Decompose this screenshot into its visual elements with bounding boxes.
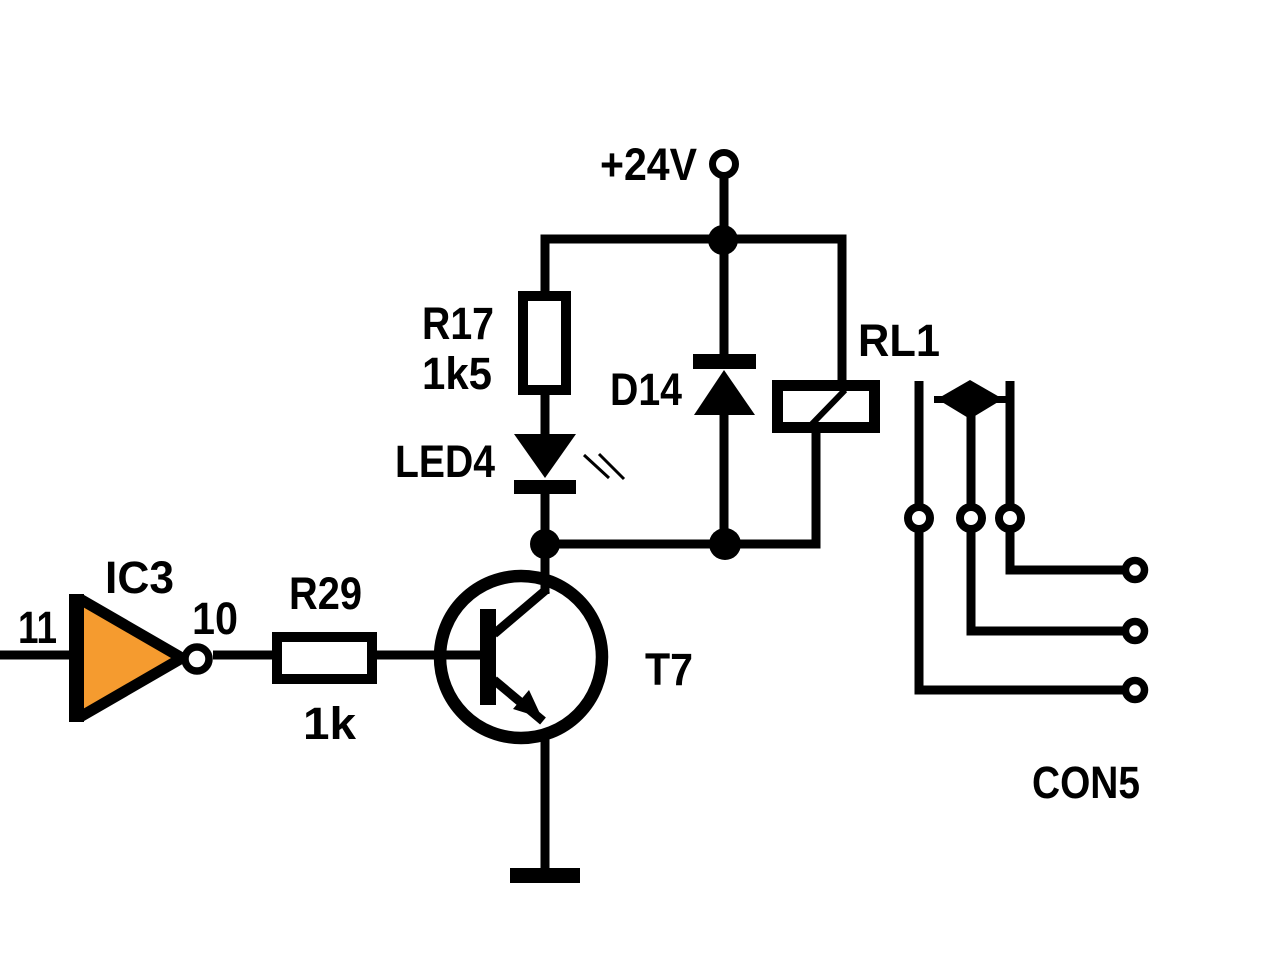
svg-text:1k: 1k [303, 698, 357, 749]
wire input to IC3 [0, 651, 69, 660]
wire collector drop [541, 533, 550, 594]
svg-text:IC3: IC3 [105, 552, 174, 603]
relay coil RL1 [778, 386, 875, 428]
svg-text:+24V: +24V [600, 139, 697, 190]
svg-text:CON5: CON5 [1032, 757, 1140, 808]
wire contact pole 2 [967, 410, 976, 504]
D14 triangle [694, 370, 755, 415]
transistor T7 circle [440, 576, 602, 738]
LED LED4 triangle [514, 434, 576, 478]
RL1 coil diagonal [812, 390, 845, 424]
inverter IC3 [84, 600, 176, 716]
wire pole 2 to CON5 pin2 [971, 532, 1123, 631]
wire emitter to ground [541, 730, 550, 870]
D14 anode stem [720, 413, 729, 544]
svg-text:10: 10 [192, 593, 238, 644]
wire contact pole 1 [915, 381, 924, 504]
svg-text:R17: R17 [422, 298, 494, 349]
T7 base bar [480, 609, 496, 705]
relay contact arm diamond [937, 380, 1003, 419]
T7 emitter diagonal [494, 680, 543, 721]
T7 emitter arrowhead [513, 690, 542, 718]
CON5 pin 1 [1126, 561, 1145, 580]
LED4 cathode bar [514, 480, 576, 494]
D14 cathode bar [693, 354, 756, 369]
IC3 output bubble [185, 647, 209, 671]
node +24V terminal [713, 153, 736, 176]
wire R17 to LED4 [541, 390, 550, 436]
svg-text:1k5: 1k5 [422, 348, 492, 399]
junction LED/collector [530, 529, 560, 559]
T7 collector diagonal [494, 589, 547, 634]
resistor R29 [277, 637, 372, 679]
diode D14 cathode stem [720, 243, 729, 360]
contact circle 3 [999, 507, 1021, 529]
svg-text:RL1: RL1 [858, 315, 940, 366]
wire IC3 to R29 [213, 651, 277, 660]
svg-text:D14: D14 [610, 364, 682, 415]
svg-text:R29: R29 [289, 568, 362, 619]
wire contact pole 3 [1006, 381, 1015, 504]
wire LED4 to node [541, 494, 550, 544]
wire pole 1 to CON5 pin3 [919, 532, 1123, 690]
ground [510, 868, 580, 883]
svg-text:LED4: LED4 [395, 436, 495, 487]
IC3 input bar [69, 594, 84, 722]
contact circle 1 [908, 507, 930, 529]
wire collector net horizontal [545, 540, 821, 549]
wire top supply bus [545, 239, 842, 381]
wire RL1 coil to net [812, 428, 821, 544]
resistor R17 [523, 296, 566, 390]
svg-text:T7: T7 [645, 644, 693, 695]
LED4 light rays [584, 455, 609, 478]
svg-text:11: 11 [18, 602, 57, 653]
wire R29 to base [372, 651, 482, 660]
junction top bus [708, 225, 738, 255]
CON5 pin 3 [1126, 681, 1145, 700]
CON5 pin 2 [1126, 622, 1145, 641]
wire +24V stem [720, 176, 729, 243]
junction D14/net [709, 528, 741, 560]
contact circle 2 [960, 507, 982, 529]
wire pole 3 to CON5 pin1 [1010, 532, 1123, 570]
